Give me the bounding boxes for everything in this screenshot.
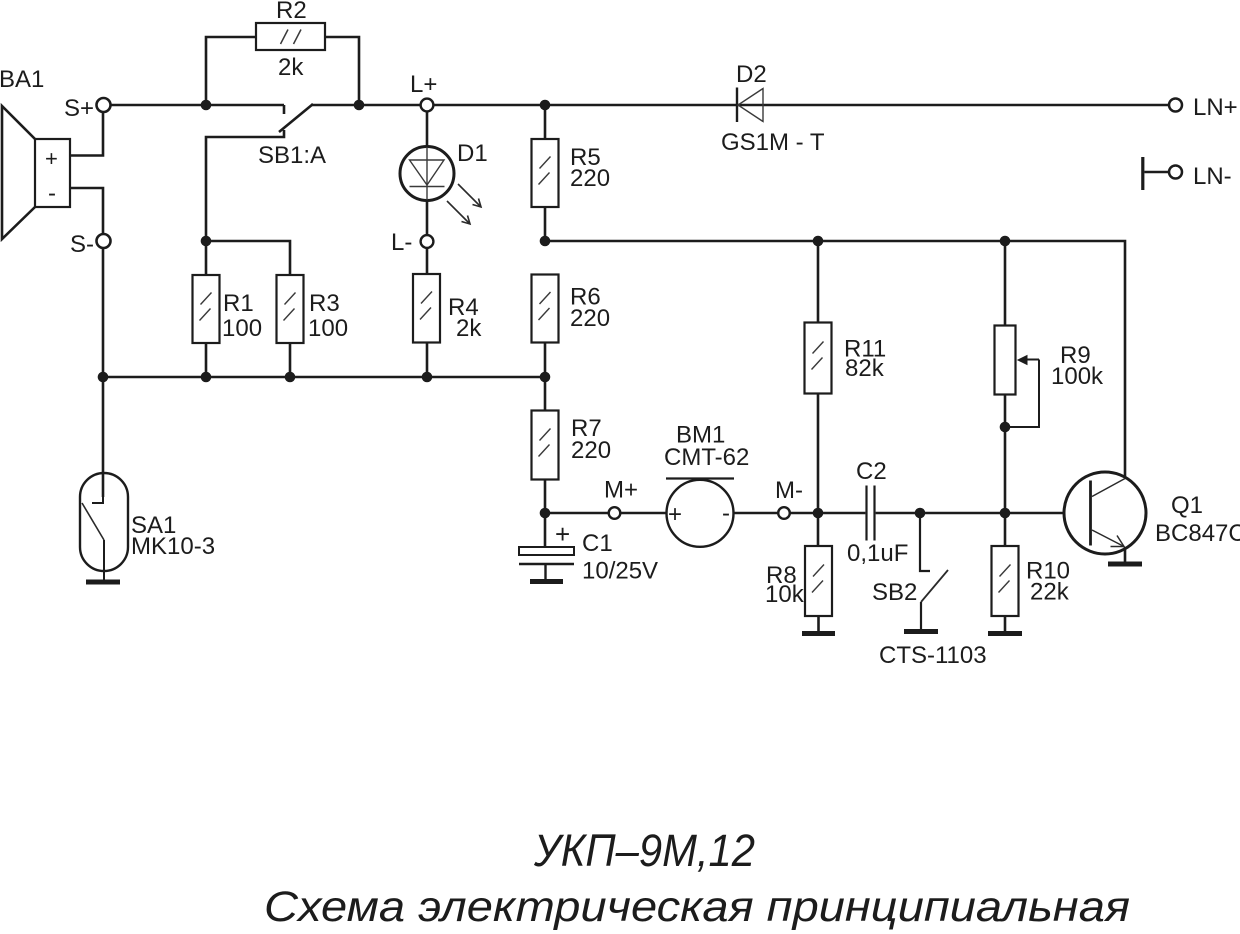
resistor R7 bbox=[532, 411, 559, 480]
node R9 wiper junction bbox=[1000, 422, 1011, 433]
wire speaker plus to S+ bbox=[70, 112, 103, 156]
terminal S- bbox=[97, 234, 111, 248]
terminal LN- bbox=[1169, 166, 1182, 179]
LED D1 bbox=[400, 147, 454, 201]
svg-text:100k: 100k bbox=[1051, 363, 1104, 390]
wire R10 bottom leg bbox=[1004, 616, 1007, 631]
svg-text:-: - bbox=[48, 180, 56, 207]
wire speaker minus to S- bbox=[70, 188, 103, 235]
switch SB2 bbox=[920, 513, 948, 629]
D1 light arrow 2 bbox=[447, 201, 470, 224]
wire R9 bottom leg bbox=[1004, 395, 1007, 428]
capacitor C2 bbox=[867, 486, 875, 541]
node SB2 top bbox=[915, 508, 926, 519]
svg-text:GS1M - T: GS1M - T bbox=[721, 129, 825, 156]
wire junction to R3 top bbox=[206, 241, 290, 275]
node bus at R4 bbox=[422, 372, 433, 383]
node bus at R6/R7 bbox=[540, 372, 551, 383]
svg-text:C2: C2 bbox=[856, 458, 887, 485]
wire R4 bottom bbox=[426, 343, 429, 378]
ground SB2 bbox=[904, 629, 938, 634]
node mid bus at R11 bbox=[813, 236, 824, 247]
wire R10 top leg bbox=[1004, 513, 1007, 546]
resistor R5 bbox=[532, 139, 559, 207]
svg-text:0,1uF: 0,1uF bbox=[847, 540, 908, 567]
wire Q1 emitter to ground bbox=[1124, 547, 1127, 562]
svg-text:100: 100 bbox=[308, 315, 348, 342]
node top wire at x206 bbox=[201, 100, 212, 111]
node mid bus at R5/R6 bbox=[540, 236, 551, 247]
resistor R3 bbox=[277, 275, 304, 343]
wire R8 top leg bbox=[817, 513, 820, 546]
wire bus down to SA1 bbox=[102, 377, 105, 497]
svg-text:82k: 82k bbox=[845, 355, 885, 382]
wire R9 junction down bbox=[1004, 427, 1007, 513]
wire R9 top leg bbox=[1004, 241, 1007, 326]
wire R3 bottom bbox=[289, 343, 292, 377]
wire M- to Q1 base bbox=[790, 512, 866, 515]
wire R6 bottom leg bbox=[544, 343, 547, 378]
svg-text:10k: 10k bbox=[765, 581, 805, 608]
resistor R2 bbox=[256, 23, 325, 50]
svg-text:+: + bbox=[668, 501, 682, 528]
node bus at R1 bbox=[201, 372, 212, 383]
capacitor C1 bbox=[519, 547, 574, 579]
resistor R8 bbox=[805, 546, 832, 616]
svg-text:+: + bbox=[45, 146, 58, 171]
node mid bus at R9 bbox=[1000, 236, 1011, 247]
node M- bus at R11/R8 bbox=[813, 508, 824, 519]
resistor R11 bbox=[805, 323, 832, 394]
potentiometer R9 bbox=[995, 326, 1016, 395]
wire mid bus bbox=[545, 241, 1125, 477]
node top wire at x359 bbox=[354, 100, 365, 111]
svg-text:LN-: LN- bbox=[1193, 163, 1232, 190]
svg-text:220: 220 bbox=[570, 305, 610, 332]
wire L+ to D2 bbox=[433, 104, 1168, 107]
wire switch to L+ bbox=[311, 104, 421, 107]
svg-text:220: 220 bbox=[570, 165, 610, 192]
speaker BA1 bbox=[2, 106, 70, 239]
wire R1 bottom bbox=[205, 343, 208, 377]
svg-text:CTS-1103: CTS-1103 bbox=[879, 642, 987, 669]
wire to C1 bbox=[544, 513, 547, 547]
node R7/C1/M+ bbox=[540, 508, 551, 519]
svg-text:S+: S+ bbox=[64, 95, 94, 122]
svg-text:2k: 2k bbox=[278, 54, 304, 81]
wire R11 top leg bbox=[817, 241, 820, 323]
svg-text:L+: L+ bbox=[410, 71, 437, 98]
bottom bus wire bbox=[103, 376, 545, 379]
wire junction to R1 top bbox=[205, 241, 208, 275]
motor BM1 bbox=[666, 479, 734, 547]
wire S+ to switch bbox=[111, 104, 285, 107]
switch SB1:A fixed contact stub bbox=[283, 105, 286, 114]
wire C1 node to M+ bbox=[545, 512, 608, 515]
svg-text:D2: D2 bbox=[736, 61, 767, 88]
svg-text:SB1:A: SB1:A bbox=[258, 142, 326, 169]
terminal M- bbox=[778, 507, 790, 519]
resistor R6 bbox=[532, 275, 559, 343]
node R5 top bbox=[540, 100, 551, 111]
svg-text:-: - bbox=[722, 500, 730, 527]
terminal L- bbox=[421, 235, 434, 248]
resistor R4 bbox=[413, 274, 440, 343]
svg-text:Схема электрическая принципиал: Схема электрическая принципиальная bbox=[264, 883, 1130, 931]
svg-text:220: 220 bbox=[571, 437, 611, 464]
svg-text:LN+: LN+ bbox=[1193, 94, 1238, 121]
reed switch SA1 bbox=[80, 473, 128, 580]
svg-text:R1: R1 bbox=[223, 290, 254, 317]
node bus at R3 bbox=[285, 372, 296, 383]
wire motor to M- bbox=[734, 512, 779, 515]
svg-text:BA1: BA1 bbox=[0, 66, 44, 93]
node M- bus at R9/R10 bbox=[1000, 508, 1011, 519]
wire L+ to LED bbox=[426, 111, 429, 147]
svg-text:L-: L- bbox=[391, 229, 412, 256]
terminal LN+ bbox=[1169, 99, 1182, 112]
svg-text:100: 100 bbox=[222, 315, 262, 342]
svg-text:D1: D1 bbox=[457, 140, 488, 167]
switch SB1:A pole wire bbox=[206, 130, 284, 241]
svg-text:S-: S- bbox=[70, 231, 94, 258]
wire LN- bbox=[1144, 171, 1168, 174]
resistor R10 bbox=[992, 546, 1019, 616]
svg-text:УКП–9М,12: УКП–9М,12 bbox=[533, 825, 755, 876]
wire R8 bottom leg bbox=[817, 616, 820, 631]
svg-text:R3: R3 bbox=[309, 290, 340, 317]
svg-text:+: + bbox=[555, 519, 570, 549]
R9 wiper arrow bbox=[1005, 355, 1039, 427]
ground Q1 bbox=[1108, 562, 1142, 567]
svg-text:SB2: SB2 bbox=[872, 579, 917, 606]
wire R2 left leg bbox=[206, 37, 256, 105]
terminal S+ bbox=[97, 98, 111, 112]
wire R2 right leg bbox=[325, 37, 359, 105]
terminal L+ bbox=[421, 99, 434, 112]
wire M+ to motor bbox=[620, 512, 666, 515]
wire R7 top leg bbox=[544, 377, 547, 411]
resistor R1 bbox=[193, 275, 220, 343]
wire R5 top leg bbox=[544, 105, 547, 139]
diode D2 bbox=[737, 88, 763, 123]
svg-text:M+: M+ bbox=[604, 477, 638, 504]
wire L- to R4 bbox=[426, 248, 429, 274]
svg-text:C1: C1 bbox=[582, 530, 613, 557]
wire R11 bottom leg bbox=[817, 394, 820, 514]
svg-text:M-: M- bbox=[775, 477, 803, 504]
svg-text:10/25V: 10/25V bbox=[582, 558, 658, 585]
wire C2 to Q1 base bbox=[876, 512, 1089, 515]
node switch pole junction bbox=[201, 236, 212, 247]
terminal M+ bbox=[609, 507, 621, 519]
svg-text:22k: 22k bbox=[1030, 579, 1070, 606]
ground R10 bbox=[988, 631, 1022, 636]
ground R8 bbox=[802, 631, 835, 636]
ground SA1 bbox=[86, 580, 120, 585]
wire R5 bottom leg bbox=[544, 207, 547, 241]
wire S- down to bus bbox=[102, 248, 105, 377]
wire R7 bottom leg bbox=[544, 480, 547, 514]
ground C1 bbox=[530, 579, 563, 584]
svg-text:R2: R2 bbox=[276, 0, 307, 24]
svg-text:Q1: Q1 bbox=[1171, 492, 1203, 519]
transistor Q1 bbox=[1064, 472, 1146, 554]
switch SB1:A arm bbox=[279, 104, 313, 132]
terminal LN- bar bbox=[1141, 157, 1144, 190]
svg-text:MK10-3: MK10-3 bbox=[131, 533, 215, 560]
svg-text:BC847C: BC847C bbox=[1155, 520, 1240, 547]
wire LED to L- bbox=[426, 200, 429, 235]
svg-text:2k: 2k bbox=[456, 315, 482, 342]
D1 light arrow 1 bbox=[458, 184, 481, 207]
svg-text:CMT-62: CMT-62 bbox=[664, 444, 749, 471]
node bus at x103 bbox=[98, 372, 109, 383]
